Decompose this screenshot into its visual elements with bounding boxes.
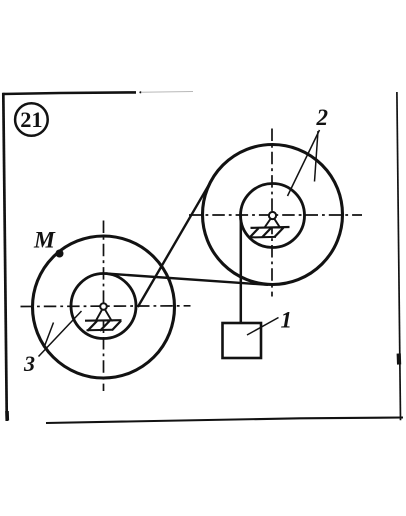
pulley 3 hub: [100, 303, 107, 310]
pulley 2 ground hatch stroke 2: [262, 228, 271, 237]
pulley 3 ground hatch stroke 2: [100, 321, 110, 331]
pulley 3 centerline vertical: [103, 221, 105, 392]
belt line upper (crossed belt, shallow): [106, 274, 269, 285]
pulley 2 ground hatch bottom line: [250, 236, 277, 239]
pulley 2 hub: [269, 212, 276, 219]
pulley 2 ground hatch stroke 3: [275, 228, 284, 237]
pulley 2 centerline vertical: [271, 129, 273, 297]
pulley 2 outer circle: [203, 145, 343, 285]
weight 1 box: [223, 323, 262, 358]
frame bottom line: [46, 418, 403, 424]
pulley 2 ground line: [251, 226, 290, 229]
pulley 2 ground hatch stroke 1: [250, 228, 259, 237]
frame top line: [3, 92, 137, 94]
frame right line thick blob: [397, 354, 402, 365]
label 2 leader to outer rim: [315, 131, 319, 182]
cord from pulley 2 to weight: [240, 216, 243, 324]
frame left bar bottom blob: [5, 411, 9, 421]
pulley 3 pivot triangle: [96, 307, 112, 321]
pulley 3 ground hatch stroke 1: [88, 321, 98, 331]
label 2 leader to inner circle: [288, 130, 320, 196]
frame top faint continuation: [141, 91, 193, 94]
label 3 leader long (to inner circle): [39, 311, 82, 357]
label 3 leader short (to outer circle): [44, 323, 54, 348]
pulley 3 outer circle: [33, 236, 175, 378]
frame left bar: [3, 93, 7, 421]
point M dot on pulley 3 rim: [56, 250, 64, 258]
pulley 2 inner circle: [241, 184, 305, 248]
frame top line end dot: [139, 91, 141, 93]
badge circle 21: [15, 103, 48, 136]
svg-text:2: 2: [316, 105, 329, 130]
frame right line: [397, 92, 401, 420]
svg-text:21: 21: [20, 107, 42, 132]
pulley 3 ground line: [85, 319, 122, 322]
pulley 3 inner circle: [71, 274, 136, 339]
svg-text:M: M: [33, 227, 56, 253]
svg-text:3: 3: [23, 351, 35, 376]
pulley 2 centerline horizontal: [189, 214, 362, 216]
svg-text:1: 1: [281, 308, 293, 333]
pulley 3 ground hatch stroke 3: [112, 321, 121, 331]
pulley 3 ground hatch bottom line: [87, 329, 113, 331]
label 1 leader: [247, 318, 279, 336]
pulley 2 pivot triangle: [265, 216, 281, 228]
belt line lower (crossed belt, steep): [138, 180, 212, 307]
pulley 3 centerline horizontal: [21, 305, 191, 308]
